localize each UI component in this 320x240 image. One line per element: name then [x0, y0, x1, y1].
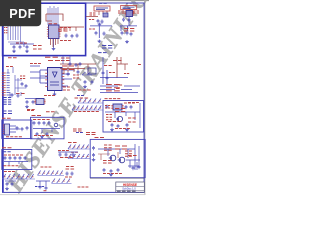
wire RC vertical: [117, 57, 128, 78]
capacitor C12: [67, 72, 70, 76]
capacitor C2: [71, 34, 74, 38]
page top edge: [0, 0, 149, 1]
wire bundle left: [8, 26, 24, 42]
IC U5: [36, 99, 44, 105]
capacitor C6: [97, 19, 100, 23]
wire J1 drops: [15, 75, 26, 95]
svg-text:HISENSE: HISENSE: [123, 183, 137, 187]
labels G2: [4, 165, 19, 167]
labels CR4: [78, 89, 91, 91]
labels RC3: [124, 73, 129, 75]
wire CR long: [60, 63, 96, 65]
IC U4 (regulator): [48, 68, 63, 91]
label C6: [89, 19, 94, 21]
capacitor C13: [77, 70, 80, 74]
PDF badge: [0, 0, 41, 26]
wire CR extra: [60, 69, 85, 75]
parts B2 bottom: [111, 123, 114, 127]
IC U4 pins: [45, 70, 47, 87]
wire D2: [128, 144, 139, 170]
capacitor C3: [13, 45, 16, 49]
wire D main: [98, 149, 135, 158]
label cluster mid-bottom: [58, 150, 69, 152]
labels cluster mid-bottom2: [60, 157, 73, 159]
svg-text:SchDoc 1.0: SchDoc 1.0: [122, 187, 136, 191]
component small box CR: [88, 68, 96, 74]
labels RC2: [109, 72, 115, 74]
labels B2c: [115, 128, 130, 130]
parts CR3: [84, 80, 87, 84]
label BL red: [27, 110, 34, 112]
wire RC h: [100, 77, 128, 79]
labels under RN1: [74, 111, 99, 113]
labels F1: [33, 119, 50, 121]
resistor R6: [82, 72, 91, 75]
labels below-B2: [73, 128, 82, 130]
parts BL2: [36, 181, 50, 186]
IC U2: [103, 13, 108, 17]
labels G1: [4, 154, 23, 156]
parts E: [16, 126, 19, 130]
label below-B2 blue: [76, 132, 83, 134]
labels D dense2: [103, 160, 112, 162]
label U2 left: [90, 12, 96, 14]
label U1: [49, 23, 58, 25]
transistor Q4: [54, 123, 58, 127]
ground D: [109, 173, 113, 176]
capacitor C2b: [76, 34, 79, 38]
title block divider1: [116, 186, 145, 188]
ground G4: [98, 23, 102, 26]
wire U1 down: [53, 39, 55, 48]
component J3 (red outline box): [121, 5, 137, 9]
label under box B1: [8, 57, 17, 59]
net label FL blue: [102, 45, 112, 47]
capacitor C15: [106, 76, 109, 80]
labels B2 mid: [115, 108, 125, 110]
label box E title: [2, 117, 11, 119]
block box B4 (LVDS conn): [2, 120, 32, 139]
wire midleft extra: [30, 66, 47, 78]
resistor ladder RN6: [52, 179, 71, 184]
labels midband extra: [30, 63, 41, 65]
parts LM: [26, 100, 29, 104]
capacitor C11: [122, 18, 125, 22]
labels B2 dense: [105, 105, 110, 107]
label PWR box title: [105, 98, 121, 100]
parts D extra: [132, 166, 135, 170]
wire E: [10, 126, 21, 132]
capacitor C4: [19, 45, 22, 49]
labels U4 right: [63, 86, 70, 88]
page right edge: [144, 0, 145, 195]
ground G4b: [98, 40, 102, 43]
schematic border frame: [3, 3, 145, 192]
wire CR drops: [68, 64, 88, 74]
label BL red2: [44, 190, 47, 192]
labels B2 top-right: [128, 102, 139, 104]
parts top-netlist: [11, 93, 14, 97]
labels bottom parts: [16, 42, 27, 44]
label U4 title: [48, 60, 60, 62]
parts BLSmall: [6, 182, 9, 186]
wire B2: [105, 112, 140, 120]
labels D dense3: [128, 155, 137, 157]
parts CR dense: [69, 62, 72, 66]
labels CR2: [73, 74, 79, 76]
parts cluster mid-bottom: [59, 153, 62, 157]
ground U4: [53, 93, 57, 96]
labels RC between: [119, 84, 123, 86]
resistor ladder RN1a: [78, 99, 101, 104]
label issue: [41, 166, 52, 168]
component J2 (red outline box): [94, 6, 110, 11]
labels D3: [103, 173, 122, 175]
net list text: [4, 97, 12, 99]
wire bottom line: [90, 177, 144, 179]
labels B2 low: [108, 121, 121, 123]
wire D extra: [126, 160, 140, 170]
parts right of RN5: [66, 166, 74, 168]
labels left bundle: [4, 27, 7, 29]
title block divider2: [116, 189, 145, 191]
capacitor C7: [101, 20, 104, 24]
label above B5 right: [46, 111, 55, 113]
wire U4 down: [54, 91, 56, 93]
net label B top: [126, 2, 132, 4]
transistor Q1: [117, 116, 122, 121]
labels under U1: [33, 45, 42, 47]
label box G title: [2, 147, 12, 149]
labels below-B2b: [86, 132, 96, 134]
label LD2: [71, 151, 78, 153]
ground G1: [12, 50, 16, 53]
wire D dense: [98, 152, 118, 160]
connector J1 pin nets: [7, 73, 10, 95]
capacitor C8: [121, 31, 124, 35]
wire G: [4, 162, 28, 166]
wire U1 right: [59, 27, 84, 31]
wire bundle into U1: [48, 6, 58, 25]
wire J1 stubs: [8, 67, 13, 73]
label right-edge: [138, 64, 141, 66]
IC U1: [49, 25, 60, 39]
wire across: [10, 42, 34, 47]
labels R-top2: [60, 40, 71, 42]
label U3 right: [133, 10, 139, 12]
wire red loop above U1: [46, 14, 63, 21]
wire U4 left: [40, 70, 48, 83]
capacitor C14: [102, 71, 105, 75]
transistor Q3: [119, 157, 125, 163]
parts D bottom: [103, 168, 106, 172]
label J1 top: [6, 66, 13, 68]
labels B2a: [124, 102, 135, 104]
title block frame: [116, 182, 145, 192]
labels R-top: [58, 28, 68, 30]
labels D dense1: [115, 145, 127, 147]
labels B2b: [106, 114, 112, 116]
resistor ladder RN4: [3, 174, 34, 179]
net labels BL: [3, 110, 13, 112]
wire U2 pins down: [86, 11, 107, 17]
block box B2 (PWR for DDR): [103, 101, 144, 133]
resistor ladder RN3: [68, 154, 89, 159]
labels CR dense1: [62, 65, 74, 67]
label B2 red: [124, 28, 134, 30]
parts F bottom: [36, 132, 39, 136]
label A-bottom red: [89, 28, 95, 30]
label box D title: [95, 137, 105, 139]
net label A: [99, 2, 107, 4]
labels RC rows: [106, 84, 120, 86]
wire rc extra: [121, 57, 125, 70]
labels mid-left2: [16, 93, 25, 95]
ground U1 G3: [52, 47, 56, 50]
page background: [0, 0, 149, 198]
label block B1 title: [45, 56, 58, 58]
labels mid-left: [20, 75, 25, 77]
wire B2 right: [139, 103, 141, 128]
parts D left: [92, 146, 95, 150]
labels rc extra: [113, 60, 122, 62]
IC U3: [126, 11, 133, 17]
label left of title block: [78, 186, 89, 188]
block box B3 (connector section): [90, 139, 145, 177]
title block bottom marks: [117, 190, 136, 192]
ground G2: [25, 50, 29, 53]
page bottom edge: [0, 193, 145, 196]
label LD: [68, 142, 77, 144]
resistor ladder RN1b: [72, 106, 101, 111]
block box B5 (CPU misc): [31, 117, 65, 139]
wire A-bottom: [90, 26, 112, 38]
parts mid-left: [21, 82, 24, 86]
wire RC rows: [100, 86, 140, 93]
label LM: [44, 95, 55, 97]
label ML red: [75, 97, 89, 99]
parts F top: [33, 121, 36, 125]
capacitor C7b: [95, 31, 98, 35]
net label CR: [98, 52, 107, 54]
labels D2: [125, 150, 132, 152]
wire U4 right: [62, 70, 75, 86]
block box B1 (top-left power section): [3, 3, 86, 55]
capacitor C5: [26, 45, 29, 49]
wire RC v2: [103, 57, 107, 84]
labels top-left box extra: [60, 27, 71, 29]
labels RN5 right: [66, 168, 75, 170]
capacitor C1: [65, 34, 68, 38]
label U3 left: [118, 10, 124, 12]
label BLad red: [4, 171, 15, 173]
block box B6 (audio section): [2, 150, 32, 170]
resistor ladder RN5: [38, 171, 63, 176]
labels RC1: [104, 65, 112, 67]
net label G: [3, 151, 11, 153]
parts RN5 right: [66, 172, 69, 176]
wire U3 down: [120, 17, 137, 32]
labels D1: [104, 144, 112, 146]
labels E bottom: [6, 136, 22, 138]
page frame left heavy edge: [2, 4, 4, 193]
parts B2 top: [106, 105, 109, 109]
wire cr drops2: [63, 56, 70, 64]
svg-text:PDF: PDF: [9, 7, 35, 21]
wire U1 pins below: [51, 39, 59, 48]
label RN6: [65, 176, 72, 178]
capacitor C10: [130, 32, 133, 36]
labels BL2: [35, 186, 44, 188]
parts G: [4, 156, 7, 160]
ground G5: [125, 40, 129, 43]
labels LM2: [27, 109, 35, 111]
connector J4 pins: [3, 125, 5, 133]
IC U6: [113, 104, 122, 110]
transistor Q2: [110, 155, 116, 161]
wire F: [33, 129, 60, 134]
net labels ML: [77, 95, 84, 97]
resistor ladder RN2: [68, 145, 89, 150]
capacitor C9: [126, 31, 129, 35]
labels F2: [34, 135, 53, 137]
labels CR1: [61, 57, 70, 59]
label box F title: [32, 115, 42, 117]
connector J4 body: [5, 124, 10, 135]
connector J1 pin labels: [2, 73, 6, 95]
